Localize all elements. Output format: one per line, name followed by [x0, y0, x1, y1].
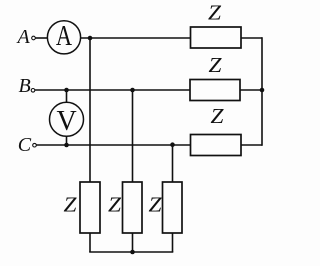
wire phase A left segment: [36, 37, 48, 39]
node junction bus-B: [260, 88, 265, 93]
wire box1h right to bus: [241, 37, 262, 39]
impedance box Z vertical 2: [123, 182, 143, 233]
terminal A: [32, 36, 36, 40]
node junction V3-C: [170, 142, 175, 147]
wire phase B: [35, 89, 190, 91]
svg-text:B: B: [19, 75, 31, 97]
impedance box Z phase A horizontal: [191, 27, 242, 48]
wire stub box2v bottom: [132, 233, 134, 252]
svg-text:Z: Z: [211, 104, 224, 128]
svg-text:V: V: [56, 106, 76, 137]
svg-text:A: A: [56, 21, 73, 52]
wire phase A middle segment: [81, 37, 191, 39]
svg-text:Z: Z: [108, 193, 121, 217]
wire vertical from node C: [172, 145, 174, 182]
impedance box Z vertical 1: [80, 182, 100, 233]
node junction voltmeter-C: [64, 143, 69, 148]
wire neutral bottom: [89, 251, 173, 253]
wire vertical from node B: [132, 90, 134, 182]
terminal C: [33, 143, 37, 147]
node junction voltmeter-B: [64, 88, 69, 93]
svg-text:C: C: [18, 134, 32, 156]
node junction V2-B: [130, 88, 135, 93]
impedance box Z phase C horizontal: [191, 135, 242, 156]
wire box3h right to bus: [241, 144, 262, 146]
svg-text:Z: Z: [64, 193, 77, 217]
svg-text:Z: Z: [208, 1, 221, 25]
wire box2h right to bus: [240, 89, 262, 91]
wire stub box3v bottom: [172, 233, 174, 252]
svg-text:Z: Z: [209, 53, 222, 77]
svg-text:A: A: [16, 26, 31, 48]
wire vertical from node A: [89, 38, 91, 182]
impedance box Z vertical 3: [163, 182, 183, 233]
wire phase C: [37, 144, 191, 146]
wire right bus: [261, 37, 263, 146]
svg-text:Z: Z: [149, 193, 162, 217]
ammeter PA1 circle: [47, 21, 80, 54]
node junction neutral: [130, 250, 135, 255]
voltmeter PV1 circle: [50, 102, 84, 136]
wire voltmeter top stub: [66, 90, 68, 103]
impedance box Z phase B horizontal: [190, 80, 240, 101]
wire voltmeter bottom stub: [66, 136, 68, 145]
wire stub box1v bottom: [89, 233, 91, 252]
node junction on A: [88, 36, 93, 41]
terminal B: [31, 89, 35, 93]
